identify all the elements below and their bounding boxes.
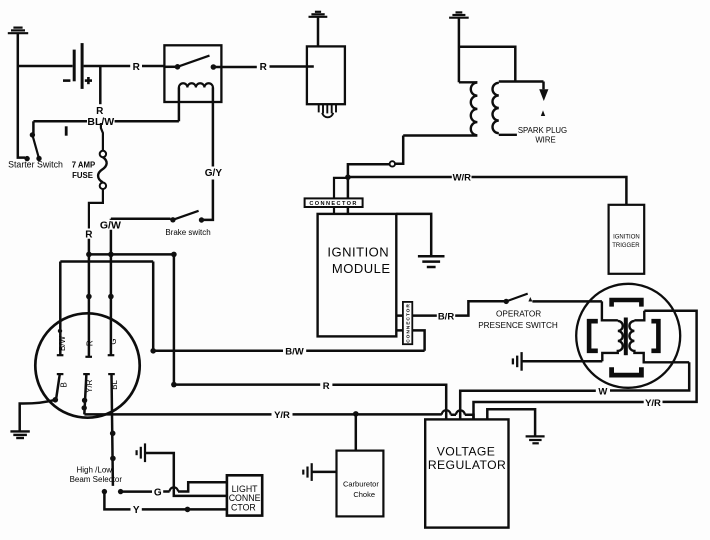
wire relay to starter motor R — [216, 65, 314, 68]
Y/R hop over R riser — [442, 410, 451, 414]
battery B1 — [74, 43, 82, 89]
magneto body (circle) — [576, 284, 680, 388]
svg-text:PRESENCE SWITCH: PRESENCE SWITCH — [478, 321, 558, 330]
svg-text:R: R — [86, 340, 95, 346]
node dot G/W on bus1 — [108, 252, 114, 258]
voltage regulator U3 box — [425, 419, 508, 527]
svg-text:IGNITION: IGNITION — [327, 244, 389, 259]
wire O to ignition module top (through connector) — [348, 164, 390, 214]
svg-text:CTOR: CTOR — [231, 503, 256, 513]
fuse F1 7 AMP — [101, 123, 103, 151]
svg-text:Carburetor: Carburetor — [343, 480, 379, 489]
magneto left magnet bracket — [589, 321, 598, 351]
wire R battery to relay — [84, 65, 165, 68]
ground G6 (sideways, left of magneto) — [513, 352, 522, 371]
ground G2 (above starter motor, inverted) — [309, 12, 328, 17]
battery minus label — [63, 79, 70, 82]
magneto bottom magnet bracket — [612, 367, 642, 375]
svg-text:Beam Selector: Beam Selector — [70, 475, 123, 484]
svg-text:REGULATOR: REGULATOR — [428, 458, 506, 472]
svg-text:SPARK PLUG: SPARK PLUG — [518, 126, 567, 135]
wire B/R from module — [396, 301, 504, 315]
wire main bus to battery — [18, 65, 73, 68]
svg-text:High /Low: High /Low — [77, 465, 113, 474]
starter switch SW1 — [30, 132, 35, 137]
relay coil — [179, 83, 213, 87]
svg-text:Starter Switch: Starter Switch — [8, 160, 63, 170]
starter motor brush symbol — [319, 104, 336, 117]
svg-text:FUSE: FUSE — [72, 171, 93, 180]
svg-text:Choke: Choke — [353, 490, 375, 499]
node dot bus1 right end — [171, 252, 177, 258]
wire ground G1 to main bus and down to starter switch — [18, 33, 25, 157]
wire W/R to ignition trigger — [349, 177, 626, 205]
wire G from beam selector — [121, 482, 227, 491]
node dot on Y line — [185, 507, 191, 513]
wire ground G8 to choke — [312, 471, 337, 474]
svg-text:IGNITION: IGNITION — [613, 235, 640, 241]
node dot R at y296 — [86, 294, 92, 300]
starter switch ON mark I — [65, 126, 68, 135]
wire BL/W left drop to starter switch — [32, 121, 35, 133]
wire G/W vertical — [111, 219, 171, 356]
bus1 R-net horizontal — [89, 253, 174, 256]
wire carburetor choke drop — [355, 414, 358, 451]
ground G8 (sideways, left of choke) — [303, 463, 311, 481]
svg-text:G: G — [109, 338, 118, 344]
svg-text:R: R — [133, 62, 141, 73]
svg-text:CONNECTOR: CONNECTOR — [405, 303, 411, 343]
ignition switch Y/R terminal tick — [83, 373, 90, 375]
wire ground G9 to light connector — [145, 453, 227, 496]
relay K1 box — [164, 45, 221, 102]
connector box (CONNECTOR, horizontal) — [305, 198, 363, 207]
node dot G/W at y296 — [108, 294, 114, 300]
svg-text:CONNECTOR: CONNECTOR — [309, 201, 358, 207]
wire Y/R terminal down — [84, 374, 86, 414]
node dot B/W corner — [150, 348, 156, 354]
relay switch contacts — [175, 64, 181, 70]
ignition coil T1 primary winding — [403, 82, 477, 135]
ground G3 (above ignition coil, inverted) — [449, 12, 469, 17]
ignition trigger U2 box — [609, 205, 645, 274]
node dot on BL wire 2 — [110, 456, 116, 462]
node dot on BL wire 1 — [110, 431, 116, 437]
node dot R line corner — [171, 382, 177, 388]
wire BL/W horizontal — [33, 120, 179, 123]
node junction W/R takeoff — [345, 174, 351, 180]
ignition switch G terminal tick — [108, 354, 115, 356]
operator presence switch SW3 — [504, 299, 509, 304]
node dot on B/W terminal — [58, 329, 62, 333]
svg-text:G: G — [154, 487, 162, 498]
svg-text:Y/R: Y/R — [274, 410, 290, 421]
svg-text:TRIGGER: TRIGGER — [612, 243, 640, 249]
node: junction battery wire drop at x=100 — [99, 66, 102, 104]
svg-text:G/Y: G/Y — [205, 168, 223, 179]
svg-text:B: B — [60, 382, 69, 387]
wire branch to secondary top — [459, 47, 515, 82]
ignition switch BL terminal tick — [108, 373, 115, 375]
ignition switch R terminal tick — [85, 356, 92, 358]
svg-text:7 AMP: 7 AMP — [72, 161, 96, 170]
wire Y/R horizontal line — [84, 414, 473, 419]
wire ground G3 down to primary top — [458, 18, 461, 83]
light connector box — [227, 475, 262, 515]
wire BL terminal down to beam selector — [112, 374, 113, 486]
svg-text:WIRE: WIRE — [535, 136, 555, 145]
svg-text:B/R: B/R — [438, 311, 455, 322]
ignition switch B terminal tick — [57, 373, 64, 375]
svg-text:Y/R: Y/R — [645, 398, 661, 409]
svg-text:B/W: B/W — [58, 335, 67, 351]
wire B/W line to module loop — [153, 350, 424, 353]
wire relay coil left terminal to BL/W — [178, 88, 181, 122]
wire OPS to magneto left winding top — [532, 300, 602, 303]
spark plug gap arrow (up) — [541, 110, 545, 116]
ground G5 (bottom-left) — [10, 431, 29, 438]
ground G9 (sideways, above beam selector) — [137, 443, 145, 462]
wire R terminal into switch — [88, 239, 91, 357]
wire bus2 left drop to ignition switch B/W terminal — [59, 262, 62, 356]
magneto core bars — [624, 318, 626, 356]
wire B/W loop from module — [396, 330, 424, 350]
connector box (CONNECTOR, vertical at module right) — [403, 302, 412, 344]
wire bus1 right drop to R line — [173, 254, 176, 384]
svg-text:R: R — [323, 381, 330, 392]
svg-text:B/W: B/W — [285, 347, 304, 358]
svg-text:W/R: W/R — [453, 172, 472, 183]
spark plug wire arrow (down) — [542, 82, 545, 90]
battery plus label — [85, 77, 92, 84]
beam selector switch SW4 contacts — [102, 489, 107, 494]
node dot carburetor choke junction — [353, 411, 359, 417]
wire module top-right to ground — [396, 214, 431, 256]
svg-text:W: W — [598, 387, 607, 398]
svg-text:Y: Y — [133, 505, 140, 516]
ground G7 (right of regulator) — [526, 436, 545, 443]
svg-text:VOLTAGE: VOLTAGE — [437, 445, 496, 459]
wire magneto W output — [460, 362, 689, 419]
magneto top magnet bracket — [612, 300, 642, 307]
wire bus2 right drop to B/W line — [152, 262, 155, 351]
brake switch SW2 — [170, 217, 175, 222]
wire into relay left contact — [164, 66, 175, 69]
svg-text:OPERATOR: OPERATOR — [496, 310, 541, 319]
svg-text:Brake switch: Brake switch — [165, 228, 210, 237]
wire primary bottom down to connector O — [395, 136, 403, 164]
ground G1 (top-left, inverted) — [8, 28, 28, 34]
starter motor M1 box — [307, 46, 345, 104]
magneto right magnet bracket — [651, 321, 658, 351]
magneto left (primary) winding and yoke — [602, 301, 623, 361]
wire stub to second module pin — [334, 178, 348, 214]
connector node O (open circle) — [390, 161, 395, 166]
ignition switch B/W terminal tick — [57, 354, 64, 356]
carburetor choke box — [337, 451, 384, 517]
ignition coil T1 secondary winding — [493, 82, 544, 135]
ignition module U1 box — [318, 214, 397, 337]
wire ground G6 to magneto — [522, 360, 603, 363]
Y/R hop over W riser — [456, 410, 465, 414]
wire R line to voltage regulator — [174, 385, 446, 420]
svg-text:MODULE: MODULE — [332, 261, 391, 276]
node dot R on bus1 — [86, 252, 92, 258]
svg-text:R: R — [260, 62, 268, 73]
G hop over ground riser — [170, 487, 178, 491]
wire relay coil right terminal down (G/Y) — [212, 88, 215, 167]
wire G/Y below label to brake switch — [204, 180, 213, 220]
wire magneto Y/R output — [474, 311, 697, 420]
bus2 B/W-net horizontal — [60, 260, 153, 263]
svg-text:G/W: G/W — [100, 220, 121, 232]
magneto right (secondary) winding and yoke — [629, 311, 689, 363]
ground G4 (right of module) — [418, 256, 445, 267]
wire B terminal to ground — [56, 374, 60, 398]
ignition switch body (circle) — [35, 313, 139, 417]
wire Y from beam selector — [104, 492, 226, 510]
wire ground G2 to starter motor — [317, 17, 320, 47]
wire regulator ground lead — [487, 409, 535, 436]
